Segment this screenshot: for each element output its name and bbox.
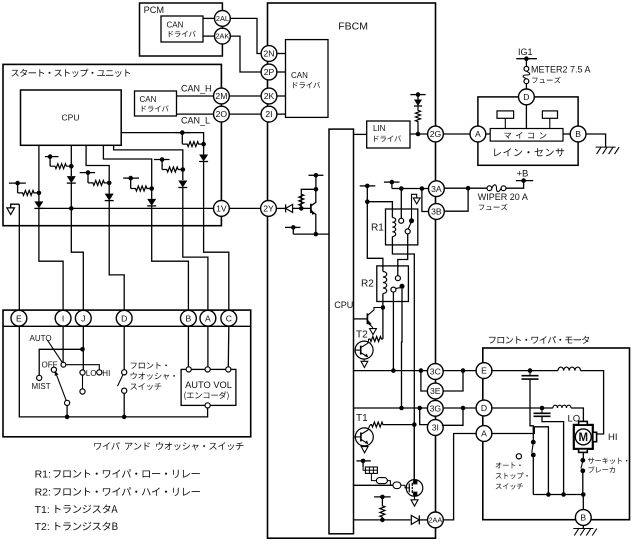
wire stub to relay coils xyxy=(367,186,383,272)
junction xyxy=(561,492,566,497)
wire 2AL to 2N xyxy=(230,18,261,53)
wire bus to B xyxy=(582,495,584,510)
junction xyxy=(419,368,424,373)
fuse label WIPER 20 A xyxy=(478,192,528,202)
junction xyxy=(314,187,319,192)
encoder pin 2 xyxy=(205,367,210,372)
svg-text:2G: 2G xyxy=(430,129,442,139)
wire D to coil xyxy=(491,407,553,409)
svg-text:D: D xyxy=(481,403,487,413)
label HI xyxy=(608,432,618,443)
supply stub (2Y block) xyxy=(309,173,324,189)
junction xyxy=(181,167,186,172)
wire 3A to fuse xyxy=(444,187,487,189)
svg-text:3C: 3C xyxy=(430,367,441,377)
junction xyxy=(417,406,422,411)
junction xyxy=(122,415,127,420)
svg-text:B: B xyxy=(580,513,586,523)
junction (coil branch) xyxy=(365,199,370,204)
wire R1 contact to R2 contact xyxy=(398,234,408,276)
junction (emitter) xyxy=(314,232,319,237)
wire CPU out 5 xyxy=(114,145,183,169)
wire to I xyxy=(39,208,63,310)
relay R2 label xyxy=(361,279,374,290)
svg-text:R1: R1 xyxy=(371,223,384,234)
svg-text:I: I xyxy=(62,313,64,323)
wire R2 coil node to T2 resistor xyxy=(382,308,384,340)
svg-text:MIST: MIST xyxy=(32,382,51,391)
pin A (motor) xyxy=(476,426,492,442)
label MIST xyxy=(32,382,51,391)
pin 2P xyxy=(261,64,277,80)
pin 2I xyxy=(261,106,277,122)
junction xyxy=(391,368,396,373)
svg-text:CAN: CAN xyxy=(291,71,308,80)
wire branch to R1 coil xyxy=(367,202,392,218)
wire CAN driver to 2AK xyxy=(203,35,215,37)
CAN driver IC (PCM) xyxy=(161,16,203,42)
pin D (switch) xyxy=(116,310,132,326)
2AA net wire xyxy=(354,519,411,521)
svg-text:+B: +B xyxy=(517,169,529,180)
resistor pull 2 xyxy=(50,164,71,169)
capacitor (D line) xyxy=(534,408,564,495)
pin 2O xyxy=(214,106,230,122)
gate driver buffer 2 xyxy=(387,481,401,489)
label OFF xyxy=(42,360,58,369)
svg-text:A: A xyxy=(481,429,487,439)
junction xyxy=(65,415,70,420)
svg-text:3A: 3A xyxy=(431,184,442,194)
net label CAN_L xyxy=(181,115,210,125)
svg-text:WIPER 20 A: WIPER 20 A xyxy=(478,192,528,202)
resistor (base pull-up) xyxy=(299,189,316,208)
front wiper motor title xyxy=(489,336,589,344)
wire diode to 2AA xyxy=(419,519,427,521)
open arrow (E line) xyxy=(7,204,19,214)
wire to D xyxy=(109,201,124,311)
pin 2Y xyxy=(261,201,277,217)
relay R1 common xyxy=(409,218,414,223)
supply stub (LIN pull-up) xyxy=(410,92,425,99)
sensor electrode 2 xyxy=(542,111,557,129)
svg-text:2O: 2O xyxy=(216,109,228,119)
fuse WIPER 20A xyxy=(487,185,506,192)
wire loop to 3E xyxy=(443,371,463,391)
wire R2 coil to T2 xyxy=(382,294,384,308)
encoder pin 4 (bottom) xyxy=(205,403,210,408)
3C net wire xyxy=(354,370,428,372)
svg-text:2AK: 2AK xyxy=(216,32,230,41)
svg-text:METER2 7.5 A: METER2 7.5 A xyxy=(531,65,591,75)
svg-text:2K: 2K xyxy=(264,91,275,101)
wire J to LO xyxy=(82,326,84,370)
wire CAN driver to 2O (CAN_L) xyxy=(177,113,214,115)
pin 2G xyxy=(428,126,444,142)
stub tap 2 xyxy=(45,154,59,166)
capacitor (E line) xyxy=(522,371,539,440)
relay R1 label xyxy=(371,223,384,234)
label LO xyxy=(568,414,581,425)
pin A (rain sensor) xyxy=(470,126,486,142)
wire riser to 3I xyxy=(420,408,429,425)
svg-text:C: C xyxy=(226,313,232,323)
resistor (T1 collector) xyxy=(368,422,384,430)
wire CPU out 6 xyxy=(121,133,203,145)
wire to J xyxy=(71,183,83,310)
svg-text:LIN: LIN xyxy=(373,124,386,133)
open arrow (T2 emitter) xyxy=(361,359,368,367)
transistor (2Y input, PNP) xyxy=(311,189,316,234)
svg-text:T2: T2 xyxy=(356,330,368,341)
wire CAN driver to 2M (CAN_H) xyxy=(177,95,214,97)
pin C (switch) xyxy=(221,310,237,326)
resistor pull 5 xyxy=(162,167,183,172)
pin A (switch) xyxy=(200,310,216,326)
svg-text:2I: 2I xyxy=(265,109,272,119)
wire emitter to CPU xyxy=(293,233,329,235)
transistor T2 xyxy=(355,339,373,359)
wire to MIST contact xyxy=(39,349,82,375)
junction xyxy=(466,186,471,191)
wire pivot to HI contact xyxy=(66,365,100,370)
wire motor to breaker xyxy=(582,452,584,458)
relay R2 common xyxy=(400,284,405,289)
junction xyxy=(80,347,85,352)
junction xyxy=(546,492,551,497)
junction xyxy=(528,368,533,373)
3A net wire xyxy=(392,188,429,190)
MOSFET (wiper output) xyxy=(401,480,423,497)
wire D to microcomputer xyxy=(525,105,527,129)
wiper switch pivot xyxy=(61,362,66,367)
svg-text:2AA: 2AA xyxy=(429,516,443,525)
wire diode to base node xyxy=(293,206,311,211)
stub tap 1 xyxy=(9,181,26,193)
AUTO VOL label xyxy=(185,380,232,390)
junction xyxy=(380,518,385,523)
wire A to ground bus xyxy=(491,427,548,495)
wire A to microcomputer xyxy=(486,133,490,135)
pin B (switch) xyxy=(181,310,197,326)
relay R1 contact (from 3A) xyxy=(399,218,404,223)
fuse label fuyuzu xyxy=(532,77,561,84)
wire R2 common to 3G line xyxy=(401,289,404,408)
svg-text:2Y: 2Y xyxy=(263,203,274,213)
svg-text:E: E xyxy=(16,313,22,323)
svg-text:J: J xyxy=(81,313,85,323)
resistor (LIN pull-up) xyxy=(416,106,421,134)
diode 6 xyxy=(199,144,208,161)
svg-text:2M: 2M xyxy=(215,91,227,101)
svg-text:3B: 3B xyxy=(431,207,442,217)
pin E (motor) xyxy=(476,363,492,379)
resistor (T2 base) xyxy=(369,337,383,342)
arrow to battery (R1 common) xyxy=(412,194,421,221)
pin 1V xyxy=(214,201,230,217)
wire B to ground xyxy=(582,525,584,528)
legend T2 xyxy=(35,521,118,533)
svg-text:3I: 3I xyxy=(432,423,439,433)
wire 1V to 2Y xyxy=(229,207,260,209)
svg-text:CAN_L: CAN_L xyxy=(181,115,210,125)
AUTO VOL encoder box xyxy=(181,369,236,405)
start-stop unit box xyxy=(3,64,221,225)
wire 2Y to diode xyxy=(276,207,285,209)
wire R2 contact to 3C line xyxy=(392,292,394,371)
transistor T2 label xyxy=(356,330,368,341)
open arrow (T1 emitter) xyxy=(361,446,368,453)
wire CPU out 3 xyxy=(86,145,109,183)
wire CAN driver to 2AL xyxy=(203,17,215,19)
wire fuse to +B xyxy=(506,181,524,189)
junction on 1V line xyxy=(69,206,74,211)
svg-text:2P: 2P xyxy=(264,67,275,77)
ground (rain sensor) xyxy=(596,147,620,154)
diode (2Y input) xyxy=(286,204,293,212)
svg-text:E: E xyxy=(481,366,487,376)
supply stub (gate driver) xyxy=(356,459,370,467)
transistor pre-driver (T2) xyxy=(354,308,383,328)
svg-text:D: D xyxy=(523,92,529,102)
wire R1 coil to main drain xyxy=(392,237,414,481)
junction xyxy=(420,186,425,191)
svg-text:FBCM: FBCM xyxy=(338,20,368,32)
contact MIST xyxy=(37,375,42,380)
contact LO xyxy=(80,370,85,375)
wire 2P to CAN driver xyxy=(277,71,286,73)
wire T1 to drain node xyxy=(384,424,414,426)
wire to E xyxy=(18,204,20,310)
PCM module box xyxy=(140,3,223,56)
wire C to encoder xyxy=(227,326,230,367)
junction (T2 collector) xyxy=(381,305,386,310)
pin 2AK xyxy=(215,28,231,44)
pin D (rain sensor) xyxy=(519,89,535,105)
transistor T1 label xyxy=(356,413,368,424)
switch ground bus xyxy=(19,326,207,417)
encoder pin 1 xyxy=(186,367,191,372)
contact OFF xyxy=(51,367,56,372)
LO lower contact xyxy=(80,375,85,394)
svg-text:CAN_H: CAN_H xyxy=(181,84,212,94)
wire loop to 3I xyxy=(442,408,463,425)
svg-text:2AL: 2AL xyxy=(216,14,229,23)
svg-text:R2:: R2: xyxy=(35,487,51,499)
svg-text:2N: 2N xyxy=(264,49,275,59)
diode (LIN pull-up) xyxy=(414,100,422,107)
wire 2M to 2K xyxy=(229,95,261,97)
svg-text:CPU: CPU xyxy=(62,113,80,123)
svg-text:T1: T1 xyxy=(356,413,368,424)
auto stop switch label xyxy=(496,462,528,489)
svg-text:A: A xyxy=(205,313,211,323)
wire microcomputer to B xyxy=(563,133,570,135)
diode 3 xyxy=(105,183,114,201)
wire to B xyxy=(152,206,189,310)
pin 3B xyxy=(429,204,445,220)
pin 3G xyxy=(427,400,443,416)
transistor T1 xyxy=(354,428,374,446)
junction xyxy=(149,186,154,191)
pin D (motor) xyxy=(476,400,492,416)
circuit breaker xyxy=(580,458,585,495)
washer switch label xyxy=(130,362,175,390)
sensor electrode 1 xyxy=(497,111,514,129)
wire E to coil xyxy=(491,370,558,372)
junction xyxy=(540,406,545,411)
fuse label fuyuzu 2 xyxy=(479,204,508,211)
pin 3E xyxy=(427,383,443,399)
front wiper motor box xyxy=(483,348,630,520)
svg-text:CPU: CPU xyxy=(334,300,353,310)
resistor pull 1 xyxy=(18,190,39,195)
relay R2 blade xyxy=(395,288,401,289)
charge pump symbol xyxy=(363,467,377,473)
legend R1 xyxy=(35,469,200,481)
relay R2 contact (to 3C) xyxy=(391,287,396,292)
wire 3C to E xyxy=(443,370,477,372)
relay R1 coil xyxy=(392,218,395,237)
svg-text:T2:: T2: xyxy=(35,521,50,533)
microcomputer box xyxy=(490,129,563,142)
supply stub (2AA) xyxy=(374,495,391,503)
1V net wire xyxy=(39,207,214,209)
IG1 terminal xyxy=(516,47,537,66)
wire D to washer switch xyxy=(123,326,125,369)
ground (motor) xyxy=(573,529,597,536)
svg-text:A: A xyxy=(475,129,481,139)
encoder label jp xyxy=(184,391,228,400)
svg-text:T1:: T1: xyxy=(35,504,50,516)
wire to C xyxy=(204,162,229,311)
pin 2M xyxy=(214,88,230,104)
wire coil to motor top xyxy=(571,408,583,422)
label AUTO xyxy=(30,334,52,343)
pin 2N xyxy=(261,46,277,62)
+B terminal xyxy=(516,169,533,183)
svg-text:3E: 3E xyxy=(430,386,441,396)
svg-text:CAN: CAN xyxy=(140,95,157,104)
stub tap 3 xyxy=(80,170,95,183)
open arrow (MOSFET source) xyxy=(411,496,418,506)
supply stub (3A net) xyxy=(384,180,400,189)
wire riser to 3E xyxy=(421,371,428,391)
pin 3A xyxy=(429,181,445,197)
label HI (switch) xyxy=(102,369,110,378)
diode 5 xyxy=(178,170,187,188)
second pole contact xyxy=(65,400,70,405)
junction xyxy=(399,186,404,191)
resistor (2AA) xyxy=(380,503,385,520)
svg-text:M: M xyxy=(579,432,589,444)
connector strip line xyxy=(3,325,251,327)
pin 3I xyxy=(427,420,443,436)
relay R2 coil xyxy=(383,272,387,294)
auto stop switch xyxy=(516,440,535,495)
pin 3C xyxy=(427,364,443,380)
LIN driver IC xyxy=(367,121,410,148)
wire A to encoder xyxy=(207,326,209,367)
resistor pull 3 xyxy=(88,180,109,185)
wire drain node to MOSFET xyxy=(413,425,415,480)
svg-text:1V: 1V xyxy=(216,203,227,213)
svg-text:HI: HI xyxy=(608,432,618,443)
relay R2 box xyxy=(377,266,409,302)
diode 1 xyxy=(34,193,43,209)
wire 2I to CAN driver xyxy=(277,113,286,115)
relay R1 box xyxy=(386,209,418,245)
contact HI xyxy=(97,370,102,375)
svg-text:R1:: R1: xyxy=(35,469,51,481)
wire 2AA to A xyxy=(443,434,477,520)
encoder pin 3 xyxy=(226,367,231,372)
inductor (HI noise filter) xyxy=(558,367,581,371)
svg-text:D: D xyxy=(121,313,127,323)
supply stub (relay coils) xyxy=(360,184,376,189)
gate driver buffer 1 xyxy=(371,473,387,483)
junction xyxy=(461,368,466,373)
wire LIN driver to 2G xyxy=(410,132,428,137)
pin E (switch) xyxy=(11,310,27,326)
svg-text:HI: HI xyxy=(102,369,110,378)
motor ground bus xyxy=(533,494,583,496)
washer switch xyxy=(118,370,127,417)
svg-text:B: B xyxy=(575,129,581,139)
fuse METER2 7.5A xyxy=(523,66,530,89)
CPU (FBCM) xyxy=(329,129,354,534)
fuse label METER2 7.5 A xyxy=(531,65,591,75)
wire 3A line to 3B xyxy=(422,189,429,212)
CAN driver IC (start-stop) xyxy=(135,91,177,116)
relay R2 contact (from R1) xyxy=(395,276,400,281)
diode (2AA output) xyxy=(411,515,419,524)
wire 2AK to 2P xyxy=(230,36,261,72)
resistor pull 4 xyxy=(131,186,152,191)
stub tap 6 xyxy=(175,130,190,144)
second pole blade xyxy=(55,371,67,401)
junction xyxy=(69,164,74,169)
svg-text:CAN: CAN xyxy=(167,21,184,30)
relay R1 contact xyxy=(405,229,410,234)
svg-text:AUTO VOL: AUTO VOL xyxy=(185,380,232,390)
svg-text:3G: 3G xyxy=(430,403,442,413)
wire 2N to CAN driver xyxy=(277,53,286,55)
wiper washer switch box xyxy=(3,310,251,437)
svg-text:B: B xyxy=(186,313,192,323)
wire 2G to rain sensor A xyxy=(443,133,470,135)
switch caption xyxy=(94,442,243,450)
wire 3G to D xyxy=(443,407,477,409)
junction xyxy=(461,406,466,411)
wire CPU out 1 xyxy=(38,145,40,193)
pin B (motor) xyxy=(575,510,591,526)
stub tap (emitter net) xyxy=(285,225,300,234)
wiper switch blade xyxy=(47,340,62,363)
diode 4 xyxy=(147,189,156,206)
wire B to encoder xyxy=(187,326,189,367)
wire CPU out 2 xyxy=(70,145,72,166)
legend R2 xyxy=(35,487,200,499)
pin 2AA xyxy=(428,512,444,528)
svg-text:LO: LO xyxy=(86,369,97,378)
CPU (start-stop unit) xyxy=(21,90,122,145)
start-stop unit title xyxy=(11,69,130,77)
wire 3A to R1 contact xyxy=(400,189,402,219)
FBCM module box xyxy=(268,3,436,538)
junction (drain gate node) xyxy=(412,422,417,427)
wire CPU to gate xyxy=(354,484,393,486)
